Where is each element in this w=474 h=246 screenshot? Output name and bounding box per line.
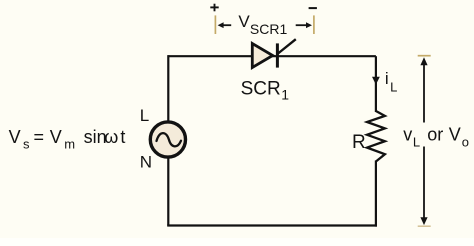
AC source VS bbox=[150, 122, 185, 157]
svg-text:L: L bbox=[140, 106, 149, 125]
svg-text:L: L bbox=[413, 135, 420, 150]
tick mark left of VSCR1 bbox=[214, 15, 216, 34]
wire left conductor bbox=[167, 55, 169, 123]
svg-text:V: V bbox=[449, 125, 461, 145]
svg-text:V: V bbox=[238, 12, 250, 31]
svg-text:or: or bbox=[427, 125, 443, 145]
svg-text:v: v bbox=[403, 125, 412, 145]
svg-text:R: R bbox=[352, 132, 366, 153]
wire left lower conductor bbox=[167, 157, 169, 226]
svg-text:t: t bbox=[120, 127, 125, 147]
arrow right toward tick bbox=[296, 22, 312, 28]
tick mark right of VSCR1 bbox=[313, 15, 315, 34]
wire top conductor bbox=[168, 55, 376, 57]
svg-text:i: i bbox=[385, 69, 389, 88]
tick mark bottom of output arrow bbox=[418, 225, 431, 227]
svg-text:=: = bbox=[34, 127, 45, 147]
svg-text:sin: sin bbox=[84, 127, 107, 147]
label iL bbox=[385, 69, 397, 95]
annotation plus sign bbox=[210, 4, 218, 12]
label vL or Vo bbox=[403, 125, 469, 150]
tick mark top of output arrow bbox=[418, 55, 431, 57]
svg-text:s: s bbox=[23, 137, 30, 152]
svg-text:N: N bbox=[140, 153, 152, 172]
svg-text:L: L bbox=[390, 80, 397, 95]
svg-text:SCR: SCR bbox=[241, 79, 281, 100]
svg-text:SCR1: SCR1 bbox=[250, 21, 288, 37]
wire right upper conductor bbox=[375, 56, 377, 112]
resistor R bbox=[367, 111, 385, 162]
output voltage double arrow bbox=[420, 57, 427, 225]
svg-text:m: m bbox=[64, 137, 75, 152]
annotation minus sign bbox=[309, 7, 317, 9]
source equation label bbox=[9, 127, 126, 152]
svg-text:1: 1 bbox=[281, 87, 289, 103]
current iL arrow on right wire bbox=[372, 77, 380, 85]
svg-text:o: o bbox=[462, 135, 469, 150]
svg-text:V: V bbox=[50, 127, 62, 147]
label SCR1 bbox=[241, 79, 290, 103]
thyristor SCR1 bbox=[252, 39, 295, 67]
svg-text:ω: ω bbox=[104, 127, 118, 147]
svg-text:V: V bbox=[9, 127, 21, 147]
wire right lower conductor bbox=[375, 161, 377, 227]
label VSCR1 bbox=[238, 12, 287, 37]
wire bottom conductor bbox=[167, 224, 377, 226]
arrow left toward tick bbox=[218, 22, 232, 28]
